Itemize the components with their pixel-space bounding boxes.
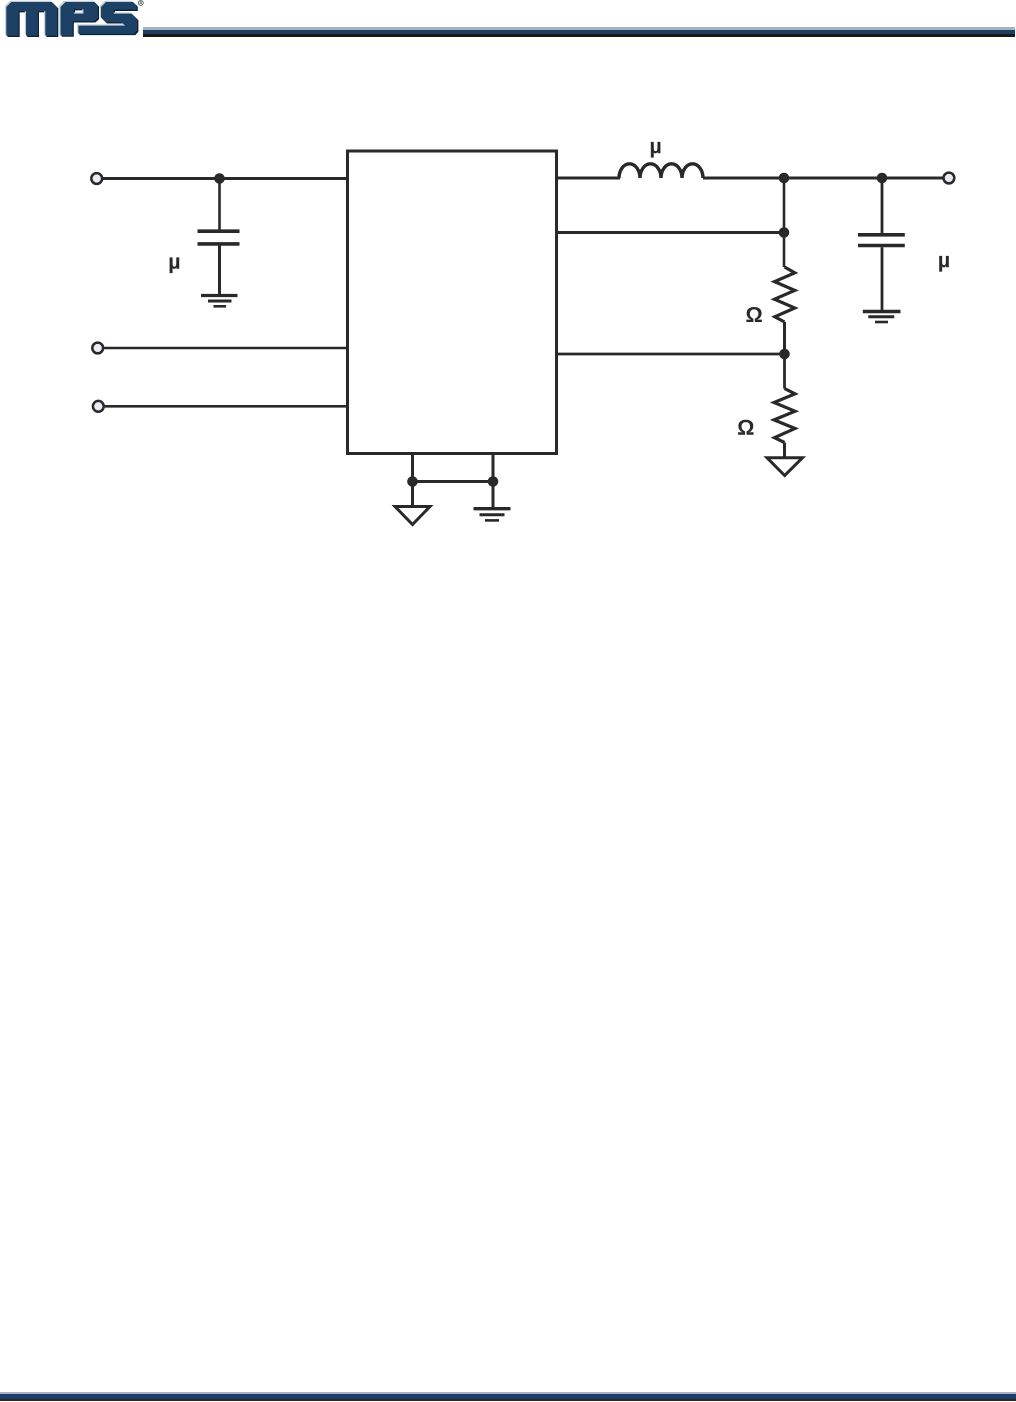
wire inductor to output — [703, 177, 943, 180]
highlight layer — [5, 1, 136, 35]
terminal EN — [92, 343, 103, 354]
terminal IN — [91, 173, 102, 184]
label C2 value — [939, 256, 949, 272]
label R2 value — [738, 420, 753, 435]
resistor R1 — [775, 267, 795, 322]
shadow layer — [8, 3, 139, 37]
footer rule — [0, 1392, 1016, 1394]
capacitor C2 — [858, 233, 905, 237]
ground AGND triangle — [395, 507, 430, 525]
wire input EN — [103, 347, 347, 350]
ground PGND earth — [474, 507, 511, 510]
node OUT sense — [779, 227, 790, 238]
wire FB to R2 — [783, 354, 786, 389]
wire feedback top — [783, 178, 786, 267]
wire GND bridge — [413, 480, 494, 483]
label C1 value — [170, 257, 180, 273]
node GND left — [407, 476, 418, 487]
wire R1 to FB — [783, 322, 786, 354]
MPS logo — [0, 0, 152, 42]
wire FB from IC — [557, 353, 785, 356]
node VOUT B — [877, 173, 888, 184]
node GND right — [488, 476, 499, 487]
wire C1 top lead — [218, 179, 221, 230]
label L1 value — [651, 142, 661, 158]
wire C2 bottom lead — [881, 247, 884, 311]
ground R2 triangle — [767, 458, 803, 476]
terminal SS — [93, 401, 104, 412]
main letters — [6, 2, 137, 36]
ground C2 — [863, 310, 901, 313]
wire GND stub right — [492, 455, 495, 509]
terminal VOUT — [944, 173, 955, 184]
node input junction — [214, 173, 225, 184]
ground C1 — [201, 294, 238, 297]
wire C2 top lead — [881, 178, 884, 233]
registered mark — [138, 0, 143, 5]
inductor L1 — [619, 164, 703, 178]
label R1 value — [746, 307, 761, 322]
node VOUT A — [779, 173, 790, 184]
wire input SS — [104, 405, 347, 408]
wire input top — [102, 177, 347, 180]
wire C1 bottom lead — [218, 246, 221, 296]
capacitor C1 — [198, 229, 240, 233]
wire GND stub left — [411, 455, 414, 507]
wire OUT sense — [557, 231, 784, 234]
resistor R2 — [774, 389, 795, 443]
node FB — [779, 349, 790, 360]
IC U1 — [348, 151, 557, 454]
header rule — [143, 27, 1015, 30]
wire SW to inductor — [557, 177, 620, 180]
wire R2 to ground — [783, 443, 786, 459]
